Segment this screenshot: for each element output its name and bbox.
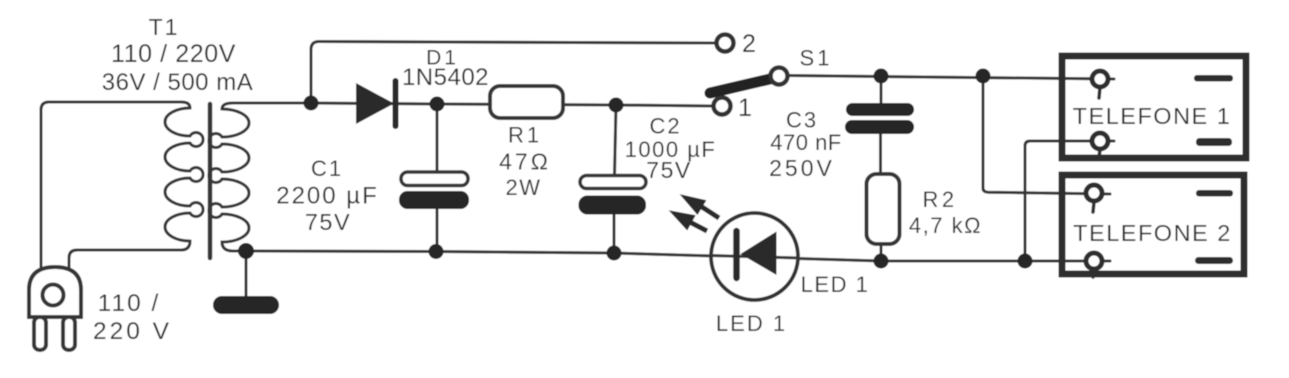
svg-text:4,7 kΩ: 4,7 kΩ: [909, 213, 982, 238]
svg-text:1: 1: [738, 94, 753, 122]
svg-text:LED 1: LED 1: [716, 311, 787, 336]
svg-text:R2: R2: [922, 187, 957, 212]
svg-text:110 /: 110 /: [98, 290, 161, 317]
svg-text:S1: S1: [800, 46, 833, 71]
svg-text:250V: 250V: [769, 155, 835, 181]
svg-text:2W: 2W: [506, 175, 542, 200]
svg-text:TELEFONE 1: TELEFONE 1: [1073, 103, 1232, 129]
svg-text:36V / 500 mA: 36V / 500 mA: [102, 69, 253, 96]
svg-text:470 nF: 470 nF: [770, 130, 842, 155]
svg-text:LED 1: LED 1: [801, 272, 870, 297]
svg-text:110 / 220V: 110 / 220V: [111, 40, 236, 68]
svg-text:T1: T1: [149, 14, 180, 40]
svg-text:R1: R1: [508, 123, 542, 148]
svg-text:75V: 75V: [305, 209, 351, 235]
svg-text:2: 2: [742, 30, 757, 58]
svg-text:75V: 75V: [646, 157, 691, 183]
svg-text:220 V: 220 V: [93, 318, 172, 345]
svg-text:1N5402: 1N5402: [402, 64, 489, 91]
svg-text:C1: C1: [311, 156, 343, 181]
svg-text:2200 µF: 2200 µF: [276, 183, 379, 210]
svg-text:47Ω: 47Ω: [499, 149, 551, 175]
svg-text:TELEFONE 2: TELEFONE 2: [1073, 220, 1232, 246]
svg-text:C2: C2: [649, 114, 681, 139]
svg-text:C3: C3: [786, 108, 818, 133]
